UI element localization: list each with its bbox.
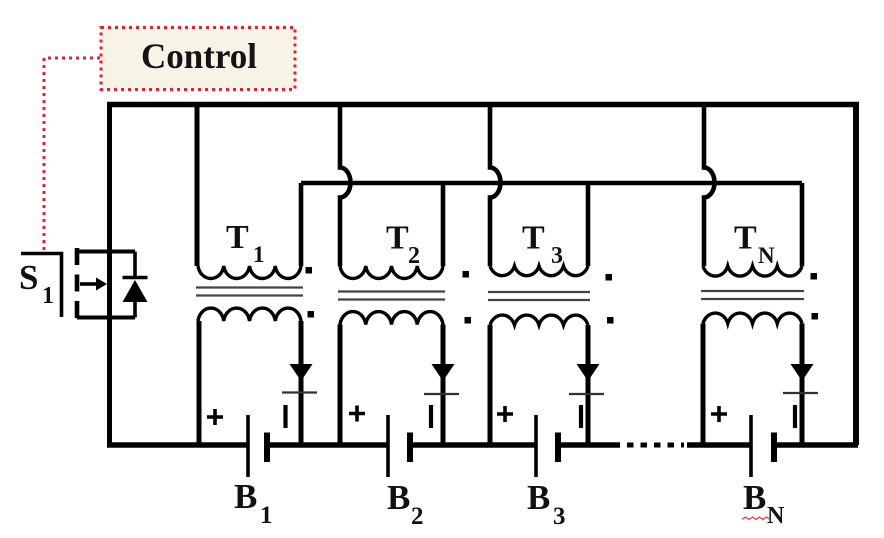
diode DN bbox=[783, 324, 818, 446]
svg-text:T: T bbox=[734, 220, 757, 257]
transformer T2 bbox=[338, 266, 471, 325]
wire dotted continuation bbox=[627, 443, 684, 448]
transformer T3 bbox=[488, 266, 614, 325]
wire T2 primary right riser bbox=[441, 183, 446, 266]
diode D1 bbox=[282, 321, 317, 445]
svg-text:1: 1 bbox=[253, 242, 265, 267]
diode D2 bbox=[424, 325, 459, 446]
wire bottom bus segment 4 bbox=[558, 442, 620, 448]
svg-text:S: S bbox=[19, 258, 38, 297]
wire bottom bus segment 3 bbox=[410, 442, 536, 448]
svg-text:3: 3 bbox=[551, 243, 563, 269]
wire TN primary right riser bbox=[800, 183, 805, 266]
wire bottom bus segment 6 bbox=[774, 442, 858, 448]
wire T2 secondary left drop bbox=[338, 325, 343, 446]
wire control-to-gate (red dotted) bbox=[44, 58, 100, 252]
svg-text:B: B bbox=[743, 478, 766, 517]
transformer TN bbox=[701, 266, 818, 324]
wire bottom bus segment 5 bbox=[687, 442, 751, 448]
svg-text:N: N bbox=[758, 243, 775, 268]
battery BN bbox=[711, 405, 795, 477]
wire second bus bbox=[301, 181, 802, 186]
wire T3 secondary left drop bbox=[488, 325, 493, 445]
diode D3 bbox=[569, 325, 604, 445]
battery B3 bbox=[497, 405, 581, 477]
squiggle under BN bbox=[742, 517, 770, 520]
wire T1 primary left drop bbox=[195, 105, 200, 267]
svg-text:N: N bbox=[767, 503, 785, 529]
battery B2 bbox=[349, 405, 431, 477]
wire TN secondary left drop bbox=[701, 324, 706, 446]
svg-text:T: T bbox=[226, 219, 249, 256]
svg-text:3: 3 bbox=[553, 503, 566, 530]
svg-text:2: 2 bbox=[408, 243, 420, 269]
wire S1 source to bottom bus bbox=[107, 318, 112, 446]
wire bottom bus segment 1 bbox=[107, 442, 248, 448]
wire T2 primary left drop with hop bbox=[340, 105, 351, 267]
svg-text:Control: Control bbox=[141, 36, 257, 76]
wire T1 primary right riser bbox=[299, 183, 304, 266]
wire T1 secondary left drop bbox=[197, 321, 202, 445]
wire TN primary left drop with hop bbox=[704, 105, 715, 267]
wire top bus bbox=[107, 102, 859, 108]
battery B1 bbox=[207, 405, 286, 477]
wire right side drop bbox=[853, 105, 859, 446]
svg-text:2: 2 bbox=[411, 503, 424, 530]
transformer T1 bbox=[196, 266, 314, 321]
transistor Q S1 (MOSFET with body diode) bbox=[21, 248, 148, 318]
svg-text:1: 1 bbox=[260, 502, 273, 529]
wire T3 primary left drop with hop bbox=[490, 105, 501, 267]
svg-text:B: B bbox=[387, 478, 410, 517]
svg-text:1: 1 bbox=[42, 283, 54, 309]
svg-text:T: T bbox=[522, 220, 545, 257]
wire left drop top-bus to S1 drain bbox=[107, 105, 112, 253]
control box bbox=[101, 28, 295, 90]
svg-text:B: B bbox=[234, 477, 257, 516]
svg-text:B: B bbox=[527, 478, 550, 517]
wire T3 primary right riser bbox=[586, 183, 591, 266]
wire bottom bus segment 2 bbox=[267, 442, 388, 448]
svg-text:T: T bbox=[386, 220, 409, 257]
